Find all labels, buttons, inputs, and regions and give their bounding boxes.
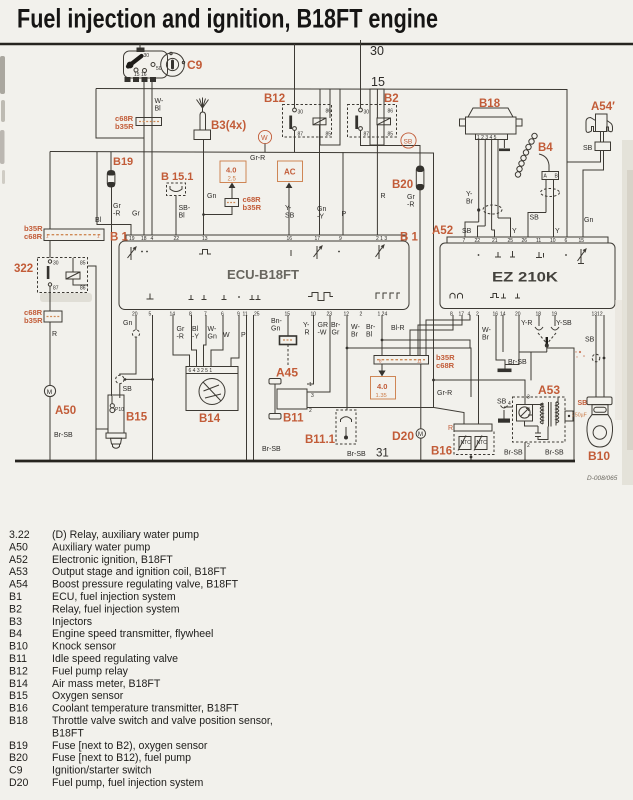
ECU internal symbols top xyxy=(128,247,137,260)
oxygen sensor B15 xyxy=(108,395,124,433)
svg-text:30: 30 xyxy=(370,44,384,58)
svg-text:Br: Br xyxy=(351,332,359,339)
svg-text:9: 9 xyxy=(339,236,342,242)
svg-text:R: R xyxy=(305,330,310,337)
svg-text:B18FT: B18FT xyxy=(52,727,84,739)
svg-text:-W: -W xyxy=(318,330,327,337)
svg-text:Coolant temperature transmitte: Coolant temperature transmitter, B18FT xyxy=(52,703,239,715)
svg-text:25: 25 xyxy=(254,312,260,318)
svg-text:30: 30 xyxy=(53,261,59,267)
wire splice to ground rail xyxy=(124,378,153,380)
svg-text:1312: 1312 xyxy=(592,312,603,318)
svg-text:A52: A52 xyxy=(9,554,28,566)
svg-text:-Y: -Y xyxy=(192,334,199,341)
ECU bottom pin numbers xyxy=(132,312,387,318)
svg-text:B3(4x): B3(4x) xyxy=(211,120,246,132)
svg-text:W: W xyxy=(223,332,230,339)
wire D20 feed xyxy=(420,364,422,429)
svg-text:Br: Br xyxy=(482,335,490,342)
svg-text:GR: GR xyxy=(318,322,329,329)
svg-text:B12: B12 xyxy=(9,665,28,677)
wire B3 to ECU pin 13 xyxy=(203,140,205,236)
svg-text:19: 19 xyxy=(129,236,135,242)
svg-text:Bl: Bl xyxy=(366,332,373,339)
wire Gr-R main feed xyxy=(50,152,434,409)
air mass meter B14 xyxy=(186,367,238,374)
op ECU box xyxy=(119,241,409,310)
svg-text:B19: B19 xyxy=(113,156,133,168)
svg-text:Fuse [next to B12), fuel pump: Fuse [next to B12), fuel pump xyxy=(52,752,191,764)
svg-text:3: 3 xyxy=(311,393,314,399)
svg-text:SB: SB xyxy=(583,145,593,152)
svg-text:30: 30 xyxy=(144,53,150,59)
svg-text:Gr: Gr xyxy=(407,194,415,201)
wires B4 to EZ pins xyxy=(528,213,546,238)
svg-text:Br-: Br- xyxy=(366,324,376,331)
svg-text:SB: SB xyxy=(497,399,507,406)
twin ground wires 11/25 xyxy=(246,315,248,460)
svg-text:87: 87 xyxy=(364,132,370,138)
fuse c68R/b35R upper xyxy=(136,118,162,126)
svg-text:Gr-R: Gr-R xyxy=(437,390,452,397)
wire C9 feed from bus 30 xyxy=(139,44,141,51)
wire bus15 xyxy=(96,89,567,238)
wire B11 pin2 to B16 xyxy=(307,407,434,409)
svg-text:Air mass meter, B18FT: Air mass meter, B18FT xyxy=(52,678,161,690)
wire branch to fuse xyxy=(204,207,233,215)
idle valve B11 xyxy=(269,379,281,385)
warning lamp W xyxy=(258,130,271,143)
scan smudges left edge xyxy=(0,56,5,94)
svg-text:SB-: SB- xyxy=(179,205,191,212)
svg-text:P: P xyxy=(342,211,347,218)
svg-text:W-: W- xyxy=(155,98,164,105)
wire right vertical xyxy=(547,348,574,460)
svg-text:B11.1: B11.1 xyxy=(305,434,336,446)
svg-text:Bl: Bl xyxy=(192,326,199,333)
capacitor 250uF xyxy=(565,411,573,421)
svg-text:16: 16 xyxy=(493,312,499,318)
svg-text:5: 5 xyxy=(149,312,152,318)
svg-text:B11: B11 xyxy=(9,653,27,665)
svg-text:W-: W- xyxy=(482,327,491,334)
svg-text:SB: SB xyxy=(285,213,295,220)
svg-text:SB: SB xyxy=(578,400,588,407)
svg-text:A53: A53 xyxy=(538,383,560,397)
svg-text:-R: -R xyxy=(407,202,414,209)
svg-text:B2: B2 xyxy=(384,93,399,105)
connector box AC xyxy=(278,161,303,182)
svg-text:2: 2 xyxy=(309,408,312,414)
legend block xyxy=(9,529,273,789)
svg-text:Br-SB: Br-SB xyxy=(54,432,73,439)
wire B20 to connector pin 11 xyxy=(419,190,421,356)
svg-text:Y: Y xyxy=(555,228,560,235)
svg-text:Bl: Bl xyxy=(155,106,162,113)
svg-text:B10: B10 xyxy=(588,449,610,463)
svg-text:2: 2 xyxy=(527,443,530,449)
svg-text:Gr: Gr xyxy=(113,203,121,210)
svg-text:A54: A54 xyxy=(9,579,28,591)
wire arrow up into AC box xyxy=(288,187,290,196)
svg-text:Gr: Gr xyxy=(132,211,140,218)
connector ellipse xyxy=(483,205,502,214)
svg-text:21: 21 xyxy=(492,238,498,244)
svg-text:23: 23 xyxy=(327,312,333,318)
splice SB xyxy=(401,133,416,148)
svg-text:86: 86 xyxy=(388,109,394,115)
bus 31 bottom xyxy=(15,460,575,463)
svg-text:Bl-R: Bl-R xyxy=(391,325,405,332)
svg-text:86: 86 xyxy=(80,286,86,292)
svg-text:R: R xyxy=(52,331,57,338)
wire EZ pin2 to B16 xyxy=(478,315,480,424)
svg-text:Gn: Gn xyxy=(271,326,280,333)
svg-text:17: 17 xyxy=(459,312,465,318)
A52 connector strip xyxy=(447,237,608,243)
wire C9 to ECU pin 18 xyxy=(143,82,145,235)
svg-text:B4: B4 xyxy=(9,628,22,640)
svg-text:ECU-B18FT: ECU-B18FT xyxy=(227,267,299,282)
svg-text:b35R: b35R xyxy=(243,203,262,212)
wire C9 to ECU pin 4 xyxy=(151,82,153,235)
svg-text:1: 1 xyxy=(309,382,312,388)
svg-text:Br-: Br- xyxy=(331,322,341,329)
svg-text:B 15.1: B 15.1 xyxy=(161,171,193,183)
wires B18 to EZ pins xyxy=(465,222,479,237)
wire A54 to EZ pin 15 xyxy=(583,151,604,238)
svg-text:Fuel pump relay: Fuel pump relay xyxy=(52,665,129,677)
svg-text:30: 30 xyxy=(298,110,304,116)
svg-text:Gn: Gn xyxy=(317,206,326,213)
svg-text:Gn: Gn xyxy=(208,334,217,341)
svg-text:20: 20 xyxy=(132,312,138,318)
svg-text:A50: A50 xyxy=(55,405,76,417)
svg-text:A52: A52 xyxy=(432,225,453,237)
svg-text:(D) Relay, auxiliary water pum: (D) Relay, auxiliary water pump xyxy=(52,529,199,541)
svg-text:Idle speed regulating valve: Idle speed regulating valve xyxy=(52,653,178,665)
air mass meter B14 wires xyxy=(173,315,190,367)
svg-text:3.22: 3.22 xyxy=(9,529,30,541)
svg-text:16: 16 xyxy=(287,236,293,242)
svg-text:A53: A53 xyxy=(9,566,28,578)
svg-text:*: * xyxy=(575,351,577,357)
svg-text:SB: SB xyxy=(123,386,133,393)
svg-text:25: 25 xyxy=(508,238,514,244)
wire bus15 to A54 xyxy=(567,151,601,163)
A53 pin4 to ground xyxy=(504,406,513,408)
wires EZ pins 13 12 to B10 xyxy=(595,315,597,397)
EZ bottom pin numbers xyxy=(450,312,603,318)
connector size box 4.0/1.35 xyxy=(371,377,396,400)
svg-text:R: R xyxy=(448,425,453,432)
svg-text:Auxiliary water pump: Auxiliary water pump xyxy=(52,541,150,553)
svg-text:B19: B19 xyxy=(9,740,28,752)
wire 322 to ground rail xyxy=(88,266,97,460)
op EZ 210K box xyxy=(440,243,615,309)
svg-text:87: 87 xyxy=(298,132,304,138)
smudge xyxy=(40,293,92,302)
svg-text:B15: B15 xyxy=(9,690,28,702)
svg-text:85: 85 xyxy=(80,261,86,267)
svg-text:B 1: B 1 xyxy=(400,232,419,244)
fuse A45 xyxy=(280,336,297,345)
svg-text:Boost pressure regulating valv: Boost pressure regulating valve, B18FT xyxy=(52,579,239,591)
wire B2 30 feed xyxy=(360,40,362,109)
svg-text:Br-SB: Br-SB xyxy=(504,450,523,457)
svg-text:Injectors: Injectors xyxy=(52,616,92,628)
wire B12 coil feed xyxy=(329,89,331,118)
wire ECU pin15 to A45 xyxy=(287,315,289,336)
svg-text:19: 19 xyxy=(552,312,558,318)
svg-text:A50: A50 xyxy=(9,541,28,553)
svg-text:B15: B15 xyxy=(126,412,148,424)
relay B12 coil xyxy=(313,118,326,125)
svg-text:14: 14 xyxy=(170,312,176,318)
svg-text:SB: SB xyxy=(530,215,540,222)
svg-text:NTC: NTC xyxy=(461,440,472,446)
svg-text:11: 11 xyxy=(243,312,248,318)
svg-text:Output stage and ignition coil: Output stage and ignition coil, B18FT xyxy=(52,566,227,578)
svg-text:A45: A45 xyxy=(276,366,298,380)
svg-text:15: 15 xyxy=(579,238,585,244)
svg-text:SB: SB xyxy=(462,228,472,235)
svg-text:B12: B12 xyxy=(264,93,285,105)
svg-text:B10: B10 xyxy=(9,641,28,653)
svg-text:Gn: Gn xyxy=(584,217,593,224)
svg-text:B2: B2 xyxy=(9,603,22,615)
wire left feed down xyxy=(49,152,51,230)
svg-text:Br-SB: Br-SB xyxy=(347,451,366,458)
ECU internal symbols bottom xyxy=(147,294,154,300)
svg-text:M: M xyxy=(47,389,52,396)
svg-text:SB: SB xyxy=(404,139,413,146)
wire B2 87 to B20 and R xyxy=(361,130,421,166)
svg-text:B3: B3 xyxy=(9,616,22,628)
A53 pin2 to ground bus xyxy=(524,442,526,460)
svg-text:Electronic ignition, B18FT: Electronic ignition, B18FT xyxy=(52,554,173,566)
svg-text:P10: P10 xyxy=(115,407,124,413)
fuse c68R/b35R lower xyxy=(44,311,62,322)
relay B2 coil xyxy=(377,118,391,125)
svg-text:18: 18 xyxy=(141,236,147,242)
svg-text:B18: B18 xyxy=(9,715,28,727)
svg-text:R: R xyxy=(381,193,386,200)
svg-text:B16: B16 xyxy=(431,446,452,458)
node Gr-R junction xyxy=(432,379,435,382)
red speckles xyxy=(579,351,581,353)
wire B12 30 feed xyxy=(294,44,296,109)
svg-text:B11: B11 xyxy=(283,413,304,425)
wire B15.1 to ECU pin 22 xyxy=(175,196,177,236)
svg-text:B20: B20 xyxy=(392,179,413,191)
svg-text:4: 4 xyxy=(508,401,511,407)
svg-text:Knock sensor: Knock sensor xyxy=(52,641,117,653)
wire left box edge xyxy=(96,89,144,139)
svg-text:Br-SB: Br-SB xyxy=(545,450,564,457)
svg-text:2: 2 xyxy=(360,312,363,318)
throttle adjust B11.1 xyxy=(336,410,356,444)
svg-text:A54′: A54′ xyxy=(591,101,615,113)
svg-text:322: 322 xyxy=(14,263,33,275)
svg-text:C9: C9 xyxy=(9,765,23,777)
wire B11 pin3 to ECU pin23 xyxy=(307,315,330,392)
connector bar b35R/c68R lower xyxy=(374,356,429,365)
wire B19 to B15 xyxy=(111,187,113,396)
svg-text:D20: D20 xyxy=(9,777,29,789)
svg-text:SB: SB xyxy=(585,337,595,344)
svg-text:Gr: Gr xyxy=(177,326,185,333)
wire ECU pin1/24 Br-Bl xyxy=(381,315,383,356)
wire B11 pin1 to ECU pin10 xyxy=(307,315,314,384)
svg-text:b35R: b35R xyxy=(115,122,134,131)
svg-text:4: 4 xyxy=(151,236,154,242)
wire B12 87 down to Gr-R xyxy=(294,130,296,152)
wire ground rail pin5 xyxy=(152,315,154,460)
svg-text:Bn-: Bn- xyxy=(271,318,283,325)
svg-text:ECU, fuel injection system: ECU, fuel injection system xyxy=(52,591,176,603)
svg-text:4.0: 4.0 xyxy=(226,166,236,175)
svg-text:Y-: Y- xyxy=(303,322,310,329)
svg-text:22: 22 xyxy=(475,238,481,244)
svg-text:c68R: c68R xyxy=(436,361,455,370)
C9 terminals xyxy=(125,77,131,82)
svg-text:Fuse [next to B2), oxygen sens: Fuse [next to B2), oxygen sensor xyxy=(52,740,208,752)
svg-text:12: 12 xyxy=(344,312,350,318)
svg-text:11: 11 xyxy=(417,359,422,364)
fuse c68R/b35R mid xyxy=(225,199,239,207)
svg-text:10: 10 xyxy=(550,238,556,244)
svg-text:Engine speed transmitter, flyw: Engine speed transmitter, flywheel xyxy=(52,628,213,640)
wire AC to ECU pin 16 xyxy=(288,196,290,235)
svg-text:B14: B14 xyxy=(199,413,221,425)
svg-text:W: W xyxy=(261,135,268,142)
svg-text:C9: C9 xyxy=(187,58,203,72)
svg-text:Y-: Y- xyxy=(285,205,292,212)
ECU top pin numbers xyxy=(129,236,387,242)
motor A50 auxiliary water pump xyxy=(44,385,55,396)
injector B3 xyxy=(197,98,209,109)
svg-text:2.5: 2.5 xyxy=(228,177,237,183)
ignition switch C9 xyxy=(124,51,168,78)
svg-text:1 2 3 4 5: 1 2 3 4 5 xyxy=(477,135,497,141)
svg-text:31: 31 xyxy=(376,448,389,460)
connector size box 4.0/2.5 xyxy=(220,161,246,183)
svg-text:22: 22 xyxy=(174,236,180,242)
diagram groups inserted below xyxy=(124,44,203,235)
wires EZ pins 16 14 to ground xyxy=(496,315,505,369)
scan shadow right edge xyxy=(622,140,633,485)
svg-text:c68R: c68R xyxy=(24,232,43,241)
svg-text:Y-: Y- xyxy=(466,191,473,198)
svg-text:Relay, fuel injection system: Relay, fuel injection system xyxy=(52,603,180,615)
EZ top pin numbers xyxy=(463,238,585,244)
svg-text:-Y: -Y xyxy=(317,214,324,221)
wire arrow into 4.0 box xyxy=(381,364,383,371)
svg-text:Ignition/starter switch: Ignition/starter switch xyxy=(52,765,152,777)
svg-text:6: 6 xyxy=(565,238,568,244)
svg-text:W-: W- xyxy=(351,324,360,331)
svg-text:Y: Y xyxy=(512,228,517,235)
wire ECU pin20 Gn to B15 xyxy=(135,315,137,330)
svg-text:b35R: b35R xyxy=(24,316,43,325)
svg-text:Fuel pump, fuel injection syst: Fuel pump, fuel injection system xyxy=(52,777,203,789)
svg-text:50: 50 xyxy=(156,66,162,72)
svg-text:4.0: 4.0 xyxy=(377,382,387,391)
svg-text:15: 15 xyxy=(285,312,291,318)
svg-text:B16: B16 xyxy=(9,703,28,715)
svg-text:Gn: Gn xyxy=(207,193,216,200)
svg-text:B 1: B 1 xyxy=(110,232,129,244)
svg-text:18: 18 xyxy=(536,312,542,318)
svg-text:EZ 210K: EZ 210K xyxy=(492,270,558,285)
svg-text:Br: Br xyxy=(466,199,474,206)
svg-text:-R: -R xyxy=(113,211,120,218)
svg-text:Gn: Gn xyxy=(123,320,132,327)
B18 shield pin xyxy=(503,140,505,149)
svg-text:B4: B4 xyxy=(538,142,553,154)
svg-text:NTC: NTC xyxy=(477,440,488,446)
svg-text:Br-SB: Br-SB xyxy=(262,446,281,453)
wire ECU pin12 W-Br xyxy=(346,315,348,410)
wire Bl to ECU pin 19 xyxy=(97,152,131,235)
svg-text:13: 13 xyxy=(202,236,208,242)
svg-text:7: 7 xyxy=(463,238,466,244)
svg-text:Bl: Bl xyxy=(95,217,102,224)
svg-text:Y-R: Y-R xyxy=(521,320,532,327)
wires EZ pins 8 17 4 to connector bar xyxy=(410,315,453,356)
bus 30 xyxy=(0,43,633,46)
svg-text:1.35: 1.35 xyxy=(376,393,387,399)
svg-text:B20: B20 xyxy=(9,752,28,764)
svg-text:30: 30 xyxy=(364,110,370,116)
svg-text:AC: AC xyxy=(284,168,296,177)
wire arrow up into 4.0 box xyxy=(231,187,233,199)
svg-text:P: P xyxy=(241,332,246,339)
svg-text:D-008/065: D-008/065 xyxy=(587,475,618,482)
svg-text:2 1 3: 2 1 3 xyxy=(376,236,387,242)
svg-text:85: 85 xyxy=(326,132,332,138)
svg-text:20: 20 xyxy=(515,312,521,318)
svg-text:87: 87 xyxy=(53,286,59,292)
svg-text:Fuel injection and ignition, B: Fuel injection and ignition, B18FT engin… xyxy=(17,4,438,34)
wires B18 pins xyxy=(478,140,480,223)
svg-text:B1: B1 xyxy=(9,591,22,603)
svg-text:W-: W- xyxy=(208,326,217,333)
svg-text:11: 11 xyxy=(536,238,541,244)
svg-text:Bl: Bl xyxy=(179,213,186,220)
ECU B1 connector strip xyxy=(126,235,406,241)
EZ internal symbols bottom xyxy=(450,293,463,298)
connector bar b35R/c68R xyxy=(44,229,104,241)
svg-text:3: 3 xyxy=(527,395,530,401)
svg-text:Throttle valve switch and valv: Throttle valve switch and valve position… xyxy=(52,715,273,727)
svg-text:15: 15 xyxy=(371,75,385,89)
svg-text:26: 26 xyxy=(522,238,528,244)
node C9 terminal blob xyxy=(137,48,145,53)
svg-text:Gr: Gr xyxy=(332,330,340,337)
svg-text:17: 17 xyxy=(315,236,321,242)
wire EZ pin20 xyxy=(519,315,547,352)
svg-text:D20: D20 xyxy=(392,429,414,443)
svg-text:B14: B14 xyxy=(9,678,28,690)
svg-text:Gr-R: Gr-R xyxy=(250,155,265,162)
svg-text:Y-SB: Y-SB xyxy=(556,320,572,327)
svg-text:Oxygen sensor: Oxygen sensor xyxy=(52,690,124,702)
svg-text:-R: -R xyxy=(177,334,184,341)
svg-text:85: 85 xyxy=(388,132,394,138)
EZ internal symbols top xyxy=(478,254,480,256)
